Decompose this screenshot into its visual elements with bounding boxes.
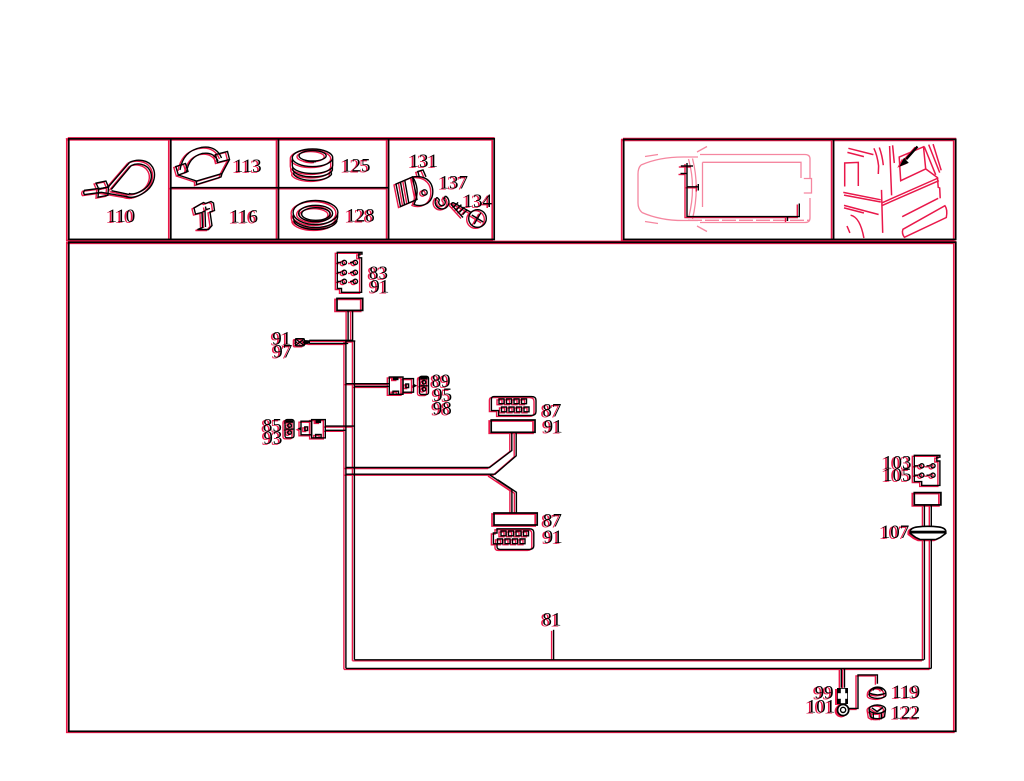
bracket 131 [396,170,433,207]
svg-text:97: 97 [273,342,292,363]
vehicle views frame [624,139,956,239]
svg-text:93: 93 [263,428,282,449]
wire to 89 connector [346,384,390,387]
trunk transition bar [345,340,355,342]
connector 103/105 pin block [914,455,940,485]
junction box under 83 [337,298,363,310]
grommet cap 119 [869,687,886,698]
grommet 107 [910,526,946,539]
svg-text:116: 116 [230,207,258,228]
leader to 119 [849,675,878,709]
svg-text:113: 113 [234,156,262,177]
leader 81 [553,630,555,660]
terminal bushing 89 [420,376,429,394]
clip 116 [194,202,215,230]
wire to 91/97 [304,340,352,345]
ring terminal 99/101 [837,688,849,716]
svg-text:122: 122 [892,703,921,724]
Y branch wires to 87/91 [346,433,517,514]
washer 137 [435,196,449,209]
drop wire to 99/101 [841,668,844,687]
connector 83/91 pin block [337,252,362,292]
svg-text:91: 91 [544,527,563,548]
connector 87/91 upper housing [491,420,535,432]
vehicle top view (pink outline) [638,147,812,232]
svg-text:81: 81 [542,609,561,630]
screw 134 [452,202,487,227]
svg-text:91: 91 [544,416,563,437]
connector 85 body [298,420,326,438]
svg-text:105: 105 [883,465,912,486]
vehicle rear view (red outline) [843,144,947,238]
trunk upper pair [348,311,353,342]
harness route overlay on top view [681,163,800,221]
svg-text:128: 128 [346,205,375,226]
arrow on rear view [899,147,917,167]
trunk main pair [346,341,355,668]
svg-text:110: 110 [108,206,136,227]
nut 122 [869,705,885,719]
connector 89 body [389,377,417,394]
svg-text:98: 98 [433,398,452,419]
svg-text:125: 125 [342,155,371,176]
riser wires right [924,505,931,668]
clip 113 [176,147,230,184]
wire 85 to trunk [325,426,354,430]
svg-text:134: 134 [464,191,493,212]
svg-text:131: 131 [410,151,439,172]
connector 87/91 lower housing [494,513,537,525]
red fringe on frame top edges [68,138,956,242]
header parts table frame [69,139,494,240]
connector 87/91 upper pin block [491,397,536,416]
main panel frame [69,242,956,731]
bottom harness wire 81 [354,659,924,661]
connector 87/91 lower pin block [493,529,533,550]
grommet 128 [293,201,338,230]
bolt symbol 91/97 [295,339,304,346]
grommet 125 [292,149,332,180]
svg-text:91: 91 [370,276,389,297]
svg-text:119: 119 [892,682,920,703]
terminal bushing 85 [285,420,294,438]
cable tie 110 [84,160,155,197]
junction box 103/105 [914,493,941,505]
svg-text:107: 107 [881,522,910,543]
svg-text:101: 101 [807,697,836,718]
